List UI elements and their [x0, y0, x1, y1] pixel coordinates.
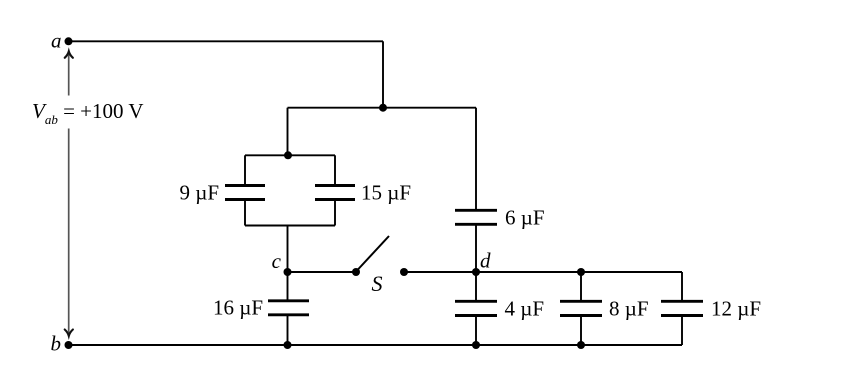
wire 12uF top lead	[681, 272, 683, 301]
wire 8uF bottom lead	[580, 316, 582, 346]
node d dot	[472, 268, 480, 276]
wire a to top corner	[69, 40, 384, 42]
wire 9uF bottom lead	[244, 200, 246, 226]
svg-text:6 µF: 6 µF	[505, 205, 545, 229]
svg-text:a: a	[51, 29, 62, 53]
svg-text:Vab = +100 V: Vab = +100 V	[32, 99, 144, 127]
wire 4uF bottom lead	[475, 316, 477, 346]
svg-text:16 µF: 16 µF	[213, 296, 263, 320]
wire 8uF top lead	[580, 272, 582, 301]
wire 16uF top lead	[287, 272, 289, 301]
wire 4uF top lead	[475, 272, 477, 301]
junction 4uF bottom	[472, 341, 480, 349]
capacitor 15uF plates	[315, 186, 355, 200]
wire parallel block bottom	[245, 225, 335, 227]
wire 12uF bottom lead	[681, 316, 683, 346]
wire top corner down	[382, 41, 384, 107]
svg-text:S: S	[372, 271, 383, 296]
wire 16uF bottom lead	[287, 315, 289, 345]
capacitor 6uF plates	[455, 210, 497, 224]
node c dot	[284, 268, 292, 276]
capacitor 9uF plates	[225, 186, 265, 200]
svg-text:9 µF: 9 µF	[179, 181, 219, 205]
wire mid horizontal	[288, 107, 477, 109]
arrowhead up at a	[65, 51, 73, 58]
voltage arrow shaft upper	[68, 53, 70, 96]
svg-text:d: d	[480, 249, 491, 273]
wire 9uF top lead	[244, 155, 246, 185]
wire 15uF bottom lead	[334, 200, 336, 226]
switch terminal dot	[400, 268, 408, 276]
switch S blade	[357, 236, 389, 271]
junction parallel block top	[284, 151, 292, 159]
junction 8uF top	[577, 268, 585, 276]
capacitor 12uF plates	[661, 301, 703, 315]
svg-text:15 µF: 15 µF	[361, 181, 411, 205]
wire parallel block top	[245, 154, 335, 156]
wire down to C 6uF	[475, 108, 477, 211]
junction top corner	[379, 104, 387, 112]
svg-text:b: b	[51, 332, 62, 356]
svg-text:8 µF: 8 µF	[609, 296, 649, 320]
wire block to node c	[287, 226, 289, 273]
capacitor 4uF plates	[455, 301, 497, 315]
svg-text:4 µF: 4 µF	[505, 296, 545, 320]
arrowhead down at b	[65, 330, 73, 337]
svg-text:12 µF: 12 µF	[711, 296, 761, 320]
wire down to parallel block	[287, 108, 289, 156]
wire bottom rail b	[69, 344, 683, 346]
switch pivot dot	[352, 268, 360, 276]
wire 15uF top lead	[334, 155, 336, 185]
capacitor 8uF plates	[560, 301, 602, 315]
wire node c to switch	[288, 271, 357, 273]
junction 16uF bottom	[284, 341, 292, 349]
node b dot	[65, 341, 73, 349]
junction 8uF bottom	[577, 341, 585, 349]
voltage arrow shaft lower	[68, 129, 70, 334]
node a dot	[65, 37, 73, 45]
capacitor 16uF plates	[268, 301, 309, 315]
wire switch to node d and corner	[404, 271, 682, 273]
svg-text:c: c	[272, 249, 282, 273]
wire 6uF bottom lead to d	[475, 224, 477, 272]
